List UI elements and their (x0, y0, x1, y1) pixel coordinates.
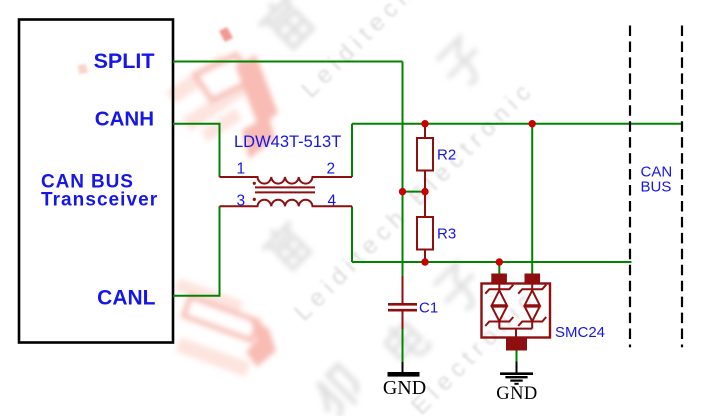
svg-text:2: 2 (327, 161, 336, 178)
svg-text:BUS: BUS (641, 179, 672, 196)
wm glyph zi mid (431, 260, 488, 317)
svg-text:R2: R2 (437, 147, 456, 164)
junction dot SPLIT mid (399, 188, 406, 195)
wire SMC24 to GND green (516, 351, 518, 362)
svg-text:CANH: CANH (95, 108, 154, 131)
wire SPLIT horizontal (173, 61, 403, 63)
wire CANL bus (352, 261, 632, 263)
capacitor C1 plates (388, 304, 417, 310)
choke L1 winding bottom (220, 200, 353, 207)
svg-text:Transceiver: Transceiver (41, 190, 158, 211)
junction dot R2 R3 mid (421, 188, 428, 195)
svg-text:CANL: CANL (97, 287, 155, 310)
svg-text:LDW43T-513T: LDW43T-513T (234, 133, 341, 151)
wire CANH bus (352, 123, 683, 125)
svg-text:1: 1 (237, 161, 246, 178)
wire SMC24 left terminal stub (498, 262, 500, 274)
svg-text:C1: C1 (419, 300, 438, 317)
TVS SMC24 common connection (499, 329, 532, 338)
wm glyph lei mid (257, 216, 316, 275)
TVS SMC24 terminals (491, 274, 507, 284)
TVS SMC24 diode pair right (518, 284, 546, 329)
svg-text:GND: GND (496, 384, 538, 404)
svg-text:GND: GND (383, 377, 426, 399)
capacitor C1 leads (402, 276, 404, 329)
svg-text:SMC24: SMC24 (555, 324, 605, 341)
TVS SMC24 diode pair left (485, 284, 513, 329)
CAN BUS transceiver box U1 (19, 20, 173, 343)
wire C1 to GND green (402, 329, 404, 362)
wm logo top (166, 54, 278, 159)
svg-text:R3: R3 (437, 226, 456, 243)
choke L1 winding top (220, 177, 353, 184)
wire CANL from box (173, 206, 220, 295)
wm glyph dian low (380, 316, 431, 367)
wire choke pin4 to CANL bus (351, 206, 353, 262)
CAN BUS dashed line left (629, 26, 631, 348)
ground GND2 earth for SMC24 (516, 362, 518, 374)
choke L1 phase dots (253, 182, 256, 185)
choke L1 core (255, 187, 315, 192)
wire SMC24 right terminal to CANH bus (531, 124, 533, 274)
wm gray text lines (289, 0, 547, 416)
wire SPLIT vertical to junction and C1 (402, 62, 404, 277)
resistor R3 pins (424, 192, 426, 262)
ground GND1 for C1 (402, 362, 404, 372)
resistor R3 body (417, 217, 433, 250)
wire R2 R3 midpoint to SPLIT (403, 191, 426, 193)
resistor R2 body (417, 138, 433, 171)
wm glyph mao low (308, 364, 366, 416)
svg-text:SPLIT: SPLIT (94, 49, 155, 73)
CAN BUS dashed line right (681, 26, 683, 348)
wire choke pin2 to CANH bus (351, 124, 353, 177)
junction dot CANL R3 (421, 258, 428, 265)
wm logo bottom (175, 278, 276, 376)
junction dot CANL SMC24 (496, 258, 503, 265)
wire CANH from box (173, 124, 220, 177)
wm glyph lei top (253, 0, 319, 54)
wm glyph zi top (434, 35, 491, 92)
junction dot CANH R2 (421, 120, 428, 127)
resistor R2 pins (424, 124, 426, 192)
junction dot CANH SMC24 (529, 120, 536, 127)
wm small chevron (219, 27, 233, 42)
TVS SMC24 body (482, 284, 551, 338)
